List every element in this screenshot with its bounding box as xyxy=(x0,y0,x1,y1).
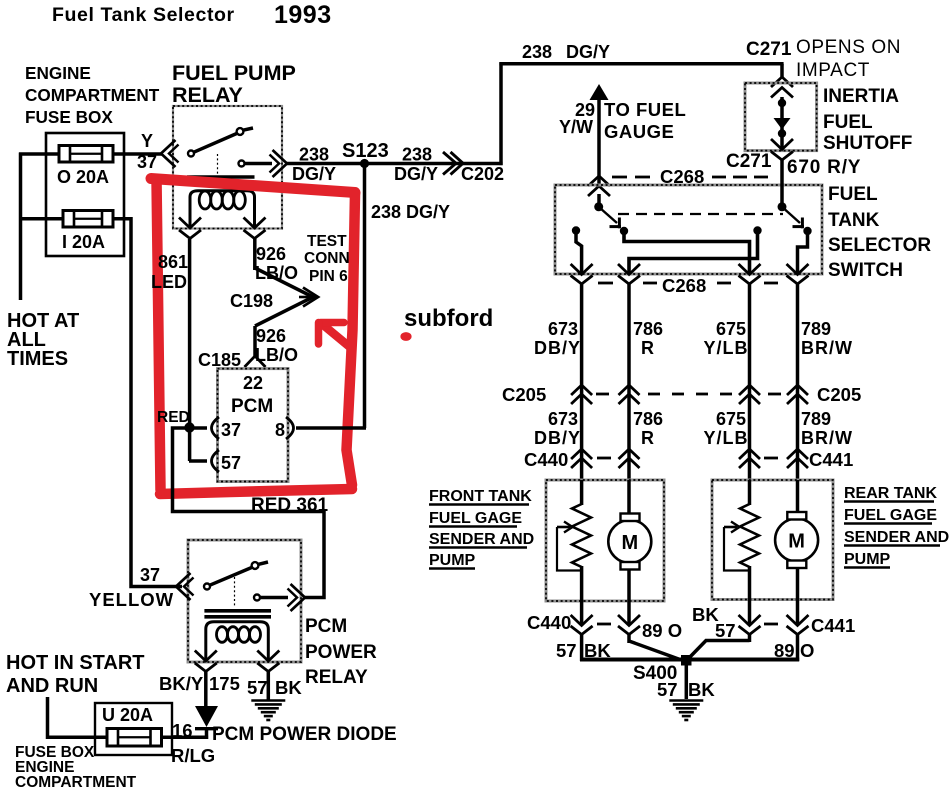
svg-text:S123: S123 xyxy=(342,140,389,162)
fuel pump relay output connector xyxy=(273,150,288,177)
rear sender return xyxy=(748,566,752,600)
connector C198 kink xyxy=(255,268,313,326)
selector throw dot w2 xyxy=(620,227,628,235)
svg-text:GAUGE: GAUGE xyxy=(604,121,674,142)
svg-text:1993: 1993 xyxy=(274,1,332,29)
wire pin 8 out xyxy=(296,426,366,430)
connector C440 bottom dash xyxy=(597,623,611,626)
svg-text:RELAY: RELAY xyxy=(305,667,368,688)
PCM power relay output connector xyxy=(291,584,306,611)
rear sender wiper xyxy=(724,526,737,529)
selector left pole dot xyxy=(594,202,603,211)
selector left arm xyxy=(600,208,617,223)
front motor feed xyxy=(627,480,631,514)
fuel pump relay coil core xyxy=(187,175,255,178)
svg-text:PIN 6: PIN 6 xyxy=(309,268,348,285)
splice S400 xyxy=(681,655,692,666)
wire pin37 to junction xyxy=(189,426,207,430)
svg-text:PCM: PCM xyxy=(305,616,347,637)
svg-text:HOT IN START: HOT IN START xyxy=(6,652,145,674)
svg-text:BR/W: BR/W xyxy=(801,338,853,358)
rear pump motor xyxy=(775,519,818,562)
fuel pump relay coil envelope xyxy=(190,191,255,228)
svg-text:C268: C268 xyxy=(662,275,706,296)
svg-text:786: 786 xyxy=(633,409,663,429)
svg-text:TO FUEL: TO FUEL xyxy=(604,99,686,120)
selector output chevrons w4 xyxy=(787,264,809,275)
fuel pump relay coil left arrows xyxy=(179,218,201,229)
svg-text:PUMP: PUMP xyxy=(844,551,891,568)
svg-text:C205: C205 xyxy=(502,384,546,405)
svg-text:926: 926 xyxy=(256,244,286,264)
svg-text:861: 861 xyxy=(158,252,188,272)
svg-text:57: 57 xyxy=(715,620,736,641)
svg-text:C271: C271 xyxy=(746,39,792,60)
fuel pump relay switch xyxy=(188,151,194,157)
rear tank box xyxy=(712,480,833,600)
wire ground bus xyxy=(580,658,799,662)
fuse box outline xyxy=(46,133,124,256)
PCM power relay coil left arrows xyxy=(195,651,217,662)
svg-text:786: 786 xyxy=(633,319,663,339)
front tank box xyxy=(546,480,664,601)
svg-text:DG/Y: DG/Y xyxy=(292,164,336,184)
PCM power relay box xyxy=(188,540,301,662)
svg-text:POWER: POWER xyxy=(305,642,377,663)
svg-text:PUMP: PUMP xyxy=(429,552,476,569)
PCM pin 8 connector xyxy=(286,417,294,439)
svg-text:SELECTOR: SELECTOR xyxy=(828,235,931,256)
svg-text:238 DG/Y: 238 DG/Y xyxy=(371,202,450,222)
svg-text:INERTIA: INERTIA xyxy=(823,86,899,107)
selector w4 link xyxy=(798,232,808,274)
selector bus A xyxy=(624,232,750,274)
fuse O 20A xyxy=(59,146,113,163)
svg-text:SHUTOFF: SHUTOFF xyxy=(823,133,912,154)
wire w4 to bus xyxy=(796,600,800,626)
connector C271 chevrons xyxy=(771,77,793,87)
wire 861 LED xyxy=(188,239,192,428)
svg-text:C202: C202 xyxy=(461,164,504,184)
arrow to fuel gauge xyxy=(590,84,609,100)
wire w2 run xyxy=(627,284,631,480)
selector throw dot w4 xyxy=(803,227,811,235)
selector bus B xyxy=(629,232,758,274)
connector C440 top dash xyxy=(597,457,611,460)
connector C198 arrowhead xyxy=(303,288,318,307)
wire w3 run xyxy=(748,284,752,480)
fuel pump relay contact xyxy=(239,161,245,167)
svg-text:16: 16 xyxy=(172,720,193,741)
red annotation top bar xyxy=(151,179,355,193)
svg-text:BK: BK xyxy=(688,679,715,700)
selector right arm xyxy=(783,208,800,223)
svg-text:175: 175 xyxy=(209,673,240,694)
svg-text:COMPARTMENT: COMPARTMENT xyxy=(25,85,160,105)
wire w4 run xyxy=(796,284,800,480)
front sender return xyxy=(580,566,584,601)
svg-text:COMPARTMENT: COMPARTMENT xyxy=(15,774,137,791)
svg-text:R/LG: R/LG xyxy=(171,745,215,766)
svg-text:RED: RED xyxy=(157,409,190,426)
connector C205 dashes xyxy=(596,393,609,396)
wire hot-in-start xyxy=(48,697,108,737)
svg-text:Y/LB: Y/LB xyxy=(703,338,748,358)
svg-text:C185: C185 xyxy=(198,350,241,370)
svg-text:Y/LB: Y/LB xyxy=(703,428,748,448)
svg-text:22: 22 xyxy=(243,373,263,393)
PCM power relay coil xyxy=(217,627,228,643)
connector C441 top dash xyxy=(764,457,778,460)
connector C271 lower chevrons xyxy=(771,139,793,150)
PCM pin 57 connector xyxy=(212,450,220,472)
ground (pcm power relay) xyxy=(251,699,285,702)
svg-text:C205: C205 xyxy=(817,384,861,405)
wire fuse O feed xyxy=(19,152,59,156)
svg-text:AND RUN: AND RUN xyxy=(6,675,98,697)
svg-text:FUEL PUMP: FUEL PUMP xyxy=(172,61,296,85)
svg-text:FUEL GAGE: FUEL GAGE xyxy=(429,510,522,527)
wire corner up xyxy=(499,62,503,165)
wire C271 corner down xyxy=(780,64,784,78)
wire S400 to ground xyxy=(685,665,689,699)
svg-text:DG/Y: DG/Y xyxy=(394,164,438,184)
svg-text:OPENS ON: OPENS ON xyxy=(796,37,901,58)
connector C440 bottom chevrons xyxy=(571,615,593,626)
svg-text:I 20A: I 20A xyxy=(62,232,105,252)
wire 926 to C185 xyxy=(253,326,257,356)
connector C268 bottom dashes xyxy=(598,282,613,285)
wire to diode xyxy=(204,672,208,708)
selector output chevrons w3 xyxy=(739,264,761,275)
svg-text:LED: LED xyxy=(151,272,187,292)
svg-text:C440: C440 xyxy=(524,449,568,470)
PCM power relay coil envelope xyxy=(206,622,268,661)
selector left pole wire xyxy=(597,194,601,207)
front sender resistor xyxy=(572,504,591,567)
rear sender feed xyxy=(748,480,752,505)
svg-text:BK/Y: BK/Y xyxy=(159,673,204,694)
svg-text:BR/W: BR/W xyxy=(801,428,853,448)
svg-text:37: 37 xyxy=(137,152,157,172)
rear sender resistor xyxy=(740,504,759,567)
wire w3 jog xyxy=(688,641,750,660)
wire pin57 to junction xyxy=(188,426,192,461)
svg-text:ENGINE: ENGINE xyxy=(25,63,91,83)
svg-text:C441: C441 xyxy=(811,615,855,636)
svg-text:673: 673 xyxy=(548,409,578,429)
wire top run to C271 xyxy=(499,62,783,66)
ground (S400) xyxy=(669,699,703,702)
PCM power relay coil right arrows xyxy=(257,651,279,662)
svg-text:675: 675 xyxy=(716,409,746,429)
front pump motor xyxy=(608,520,651,563)
svg-text:57: 57 xyxy=(247,677,268,698)
svg-text:M: M xyxy=(621,532,638,554)
wire w2 below box xyxy=(627,601,631,626)
svg-text:TANK: TANK xyxy=(828,210,880,231)
svg-text:8: 8 xyxy=(275,420,285,440)
fuse U 20A xyxy=(107,729,162,747)
red annotation bottom bar xyxy=(160,489,352,494)
connector chevrons 29 wire xyxy=(588,176,610,186)
red annotation arrow xyxy=(322,324,351,348)
svg-text:238: 238 xyxy=(299,145,329,165)
connector C441 bottom dash xyxy=(764,623,778,626)
selector right pole wire xyxy=(780,160,784,207)
svg-text:C198: C198 xyxy=(230,291,273,311)
splice S123 xyxy=(360,159,369,168)
svg-text:PCM: PCM xyxy=(231,396,273,417)
svg-text:675: 675 xyxy=(716,319,746,339)
svg-text:FRONT TANK: FRONT TANK xyxy=(429,488,532,505)
inertia switch symbol xyxy=(780,97,784,149)
svg-text:O: O xyxy=(800,640,814,661)
PCM box xyxy=(218,369,289,482)
connector C441 top chevrons xyxy=(739,449,760,459)
connector C205 chevrons xyxy=(571,385,592,395)
front sender wiper xyxy=(557,526,570,529)
svg-text:57: 57 xyxy=(221,453,241,473)
junction dot (pin37/57/861/red) xyxy=(184,422,194,432)
rear motor feed xyxy=(796,480,800,512)
svg-text:Y/W: Y/W xyxy=(559,117,593,137)
svg-text:TIMES: TIMES xyxy=(7,348,68,370)
svg-text:SENDER AND: SENDER AND xyxy=(429,531,534,548)
red annotation left bar xyxy=(157,179,161,490)
wire w1 to bus xyxy=(580,601,584,626)
svg-text:37: 37 xyxy=(221,420,241,440)
wire w2 diagonal xyxy=(629,641,680,660)
front motor return xyxy=(627,569,631,601)
svg-text:789: 789 xyxy=(801,319,831,339)
PCM power relay coil core xyxy=(204,609,271,613)
selector output chevrons w2 xyxy=(618,264,640,275)
selector w1 link xyxy=(576,232,582,274)
svg-text:670 R/Y: 670 R/Y xyxy=(787,157,861,178)
svg-text:REAR TANK: REAR TANK xyxy=(844,485,937,502)
svg-text:YELLOW: YELLOW xyxy=(89,589,174,610)
svg-text:238: 238 xyxy=(402,145,432,165)
wire diode to fuse run xyxy=(205,727,209,739)
svg-text:RELAY: RELAY xyxy=(172,83,243,107)
wire relay output to corner xyxy=(287,162,503,166)
connector C185 chevron xyxy=(245,356,266,367)
selector internal dashed link xyxy=(618,213,783,215)
PCM power relay contact xyxy=(254,595,260,601)
connector C268 top dashes xyxy=(612,176,627,179)
svg-text:926: 926 xyxy=(256,326,286,346)
svg-text:R: R xyxy=(641,338,654,358)
red dot (under subford) xyxy=(400,332,411,341)
selector right pole dot xyxy=(778,202,787,211)
wire w1 run xyxy=(580,284,584,480)
svg-text:57: 57 xyxy=(556,640,577,661)
rear motor return xyxy=(796,568,800,600)
svg-text:Fuel Tank Selector: Fuel Tank Selector xyxy=(52,4,235,26)
svg-text:O 20A: O 20A xyxy=(57,167,109,187)
svg-text:238: 238 xyxy=(522,42,552,62)
PCM pin 37 connector xyxy=(212,417,220,439)
svg-text:FUEL: FUEL xyxy=(823,112,873,133)
svg-text:BK: BK xyxy=(275,677,302,698)
fuel pump relay pin 37 connector xyxy=(161,140,176,167)
inertia box xyxy=(745,83,817,151)
fuse I 20A xyxy=(63,211,113,228)
PCM power relay switch xyxy=(204,584,210,590)
svg-text:SWITCH: SWITCH xyxy=(828,260,903,281)
svg-text:FUEL: FUEL xyxy=(828,184,878,205)
svg-text:C441: C441 xyxy=(809,449,853,470)
wire to fuel gauge xyxy=(597,97,601,186)
svg-text:DB/Y: DB/Y xyxy=(534,338,581,358)
front sender feed xyxy=(580,480,584,505)
svg-text:673: 673 xyxy=(548,319,578,339)
selector output chevrons w1 xyxy=(571,264,593,275)
svg-text:C271: C271 xyxy=(726,151,772,172)
wire w3 below box xyxy=(748,600,752,626)
svg-text:U 20A: U 20A xyxy=(102,705,153,725)
selector throw dot w1 xyxy=(572,226,580,234)
red annotation right bar xyxy=(347,194,356,485)
wire RED 361 run xyxy=(173,428,325,598)
svg-text:R: R xyxy=(641,428,654,448)
svg-text:DG/Y: DG/Y xyxy=(566,42,610,62)
svg-text:89 O: 89 O xyxy=(642,620,682,641)
connector C441 bottom chevrons xyxy=(739,615,761,626)
svg-text:subford: subford xyxy=(404,305,493,332)
connector C202 chevrons xyxy=(443,152,456,175)
wire hot-at-all-times vertical xyxy=(19,153,23,301)
svg-text:Y: Y xyxy=(141,131,153,151)
diode PCM power diode xyxy=(195,706,218,727)
svg-text:TEST: TEST xyxy=(307,233,347,250)
svg-text:CONN: CONN xyxy=(304,250,350,267)
wire fuse I feed xyxy=(19,217,63,221)
svg-text:IMPACT: IMPACT xyxy=(796,60,870,81)
svg-text:DB/Y: DB/Y xyxy=(534,428,581,448)
selector switch box xyxy=(555,185,822,274)
svg-text:789: 789 xyxy=(801,409,831,429)
wire fuse O to relay xyxy=(113,152,162,156)
svg-text:57: 57 xyxy=(657,679,678,700)
fuel pump relay box xyxy=(173,106,282,229)
fuel pump relay coil xyxy=(199,191,211,209)
svg-text:PCM POWER DIODE: PCM POWER DIODE xyxy=(212,724,397,745)
svg-text:M: M xyxy=(788,531,805,553)
wire to ground 1 xyxy=(267,672,271,701)
fuse box (bottom) outline xyxy=(95,703,172,755)
svg-text:37: 37 xyxy=(140,565,160,585)
fuel pump relay coil right arrows xyxy=(244,218,266,229)
svg-text:C440: C440 xyxy=(527,612,571,633)
svg-text:FUSE BOX: FUSE BOX xyxy=(25,107,113,127)
PCM power relay pin connector xyxy=(176,573,191,600)
selector throw dot w3 xyxy=(753,226,761,234)
svg-text:SENDER AND: SENDER AND xyxy=(844,529,949,546)
wire 238 vertical to PCM pin 8 xyxy=(363,164,367,429)
wire fuse I to pcm relay xyxy=(113,219,182,587)
svg-text:FUEL GAGE: FUEL GAGE xyxy=(844,507,937,524)
connector C440 top chevrons xyxy=(571,449,592,459)
svg-text:RED 361: RED 361 xyxy=(251,495,329,516)
